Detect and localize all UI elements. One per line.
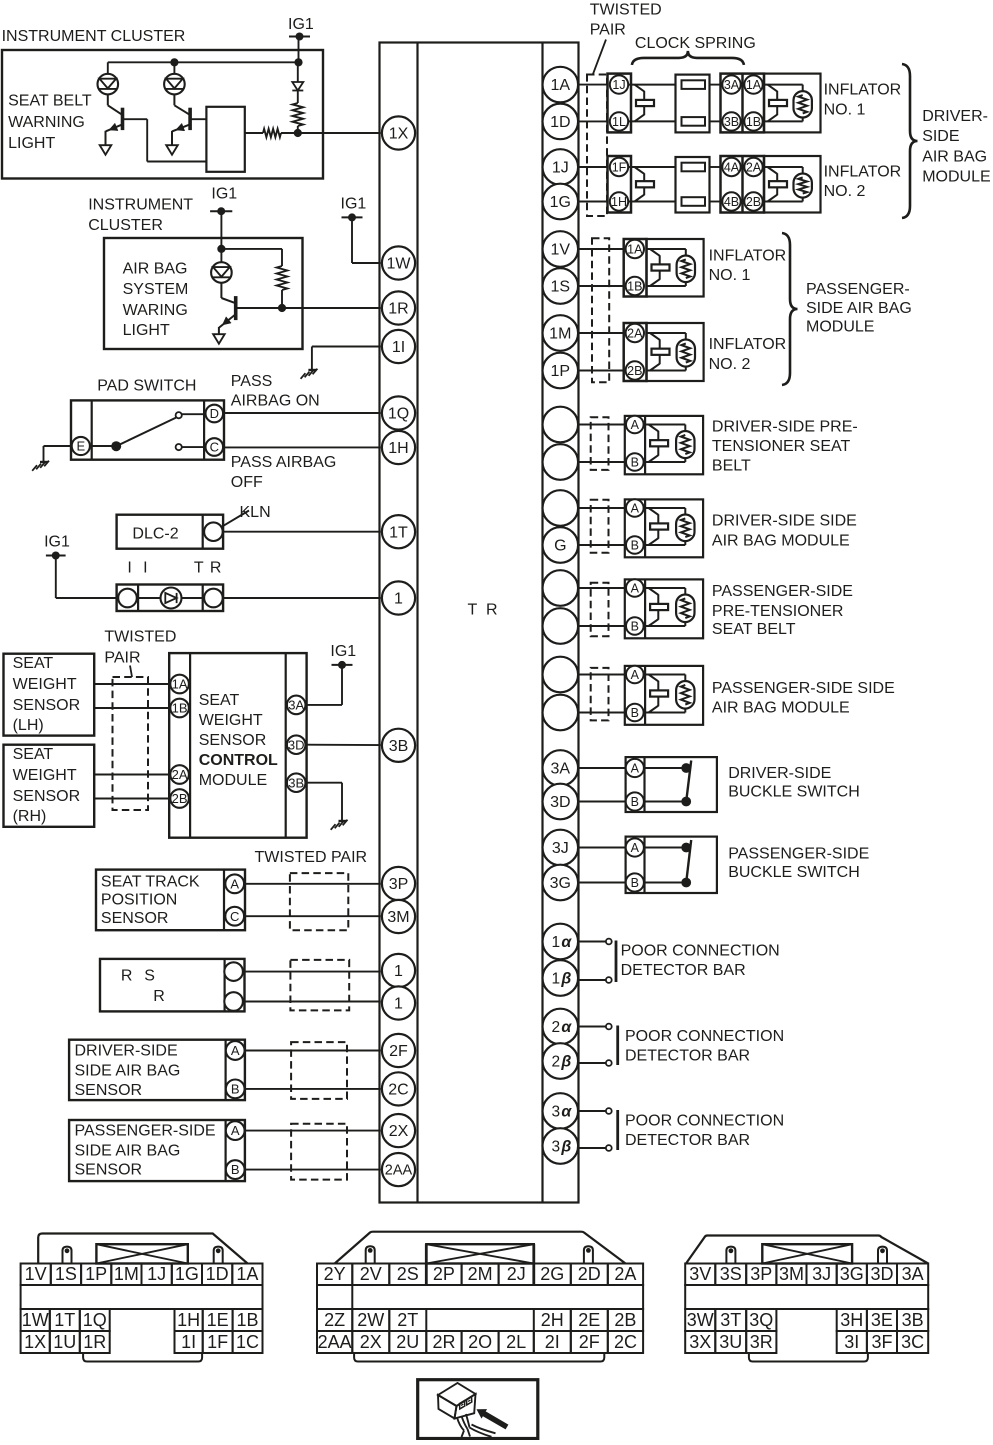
svg-text:C: C — [210, 440, 219, 455]
svg-text:2D: 2D — [578, 1264, 601, 1284]
svg-text:2X: 2X — [360, 1332, 382, 1352]
svg-text:3X: 3X — [689, 1332, 711, 1352]
svg-text:1G: 1G — [550, 194, 571, 211]
svg-text:CLUSTER: CLUSTER — [88, 217, 163, 234]
svg-text:PRE-TENSIONER: PRE-TENSIONER — [712, 603, 844, 620]
svg-text:SENSOR: SENSOR — [75, 1161, 143, 1178]
svg-text:1R: 1R — [388, 301, 408, 318]
svg-text:2L: 2L — [506, 1332, 526, 1352]
svg-text:2V: 2V — [360, 1264, 382, 1284]
svg-text:2A: 2A — [627, 326, 643, 340]
svg-text:2E: 2E — [578, 1310, 600, 1330]
svg-text:1J: 1J — [612, 78, 625, 92]
svg-text:3B: 3B — [902, 1310, 924, 1330]
svg-text:1: 1 — [394, 591, 403, 608]
svg-text:AIR BAG MODULE: AIR BAG MODULE — [712, 700, 850, 717]
svg-text:PAIR: PAIR — [590, 21, 626, 38]
svg-text:SENSOR: SENSOR — [101, 910, 169, 927]
svg-text:2B: 2B — [614, 1310, 636, 1330]
svg-text:BELT: BELT — [712, 458, 751, 475]
svg-text:A: A — [230, 876, 239, 891]
svg-text:1Q: 1Q — [388, 406, 409, 423]
svg-text:3A: 3A — [724, 78, 740, 92]
svg-text:1U: 1U — [53, 1332, 76, 1352]
svg-text:MODULE: MODULE — [199, 772, 267, 789]
svg-text:POOR CONNECTION: POOR CONNECTION — [625, 1028, 784, 1045]
svg-text:3A: 3A — [902, 1264, 924, 1284]
svg-text:3G: 3G — [840, 1264, 864, 1284]
svg-text:3A: 3A — [551, 761, 571, 778]
svg-text:3E: 3E — [871, 1310, 893, 1330]
svg-text:A: A — [631, 668, 640, 682]
svg-text:D: D — [210, 406, 219, 421]
svg-text:4A: 4A — [724, 160, 740, 174]
svg-text:3C: 3C — [901, 1332, 924, 1352]
svg-text:DLC-2: DLC-2 — [132, 526, 178, 543]
svg-text:2Z: 2Z — [324, 1310, 345, 1330]
svg-text:(LH): (LH) — [13, 717, 44, 734]
svg-text:3J: 3J — [552, 840, 569, 857]
svg-text:S: S — [144, 968, 155, 985]
svg-text:1S: 1S — [55, 1264, 77, 1284]
svg-text:PASSENGER-SIDE: PASSENGER-SIDE — [712, 583, 853, 600]
svg-text:POSITION: POSITION — [101, 891, 177, 908]
svg-text:(RH): (RH) — [13, 808, 47, 825]
svg-text:INSTRUMENT: INSTRUMENT — [88, 196, 193, 213]
svg-text:2Y: 2Y — [324, 1264, 346, 1284]
svg-text:R: R — [486, 601, 498, 618]
svg-text:β: β — [560, 1139, 571, 1156]
svg-text:SENSOR: SENSOR — [199, 732, 267, 749]
svg-text:2X: 2X — [389, 1123, 409, 1140]
svg-text:2O: 2O — [468, 1332, 492, 1352]
svg-text:B: B — [631, 619, 639, 633]
svg-text:B: B — [231, 1162, 240, 1177]
svg-text:1H: 1H — [611, 195, 627, 209]
svg-text:A: A — [631, 501, 640, 515]
svg-text:1T: 1T — [54, 1310, 75, 1330]
svg-text:1M: 1M — [114, 1264, 139, 1284]
svg-text:WEIGHT: WEIGHT — [199, 712, 263, 729]
svg-text:1D: 1D — [550, 114, 570, 131]
svg-text:DRIVER-SIDE: DRIVER-SIDE — [728, 765, 831, 782]
svg-text:3B: 3B — [389, 738, 409, 755]
svg-text:NO. 2: NO. 2 — [709, 356, 751, 373]
svg-text:3H: 3H — [840, 1310, 863, 1330]
svg-text:β: β — [560, 971, 571, 988]
svg-text:1H: 1H — [177, 1310, 200, 1330]
svg-text:TWISTED: TWISTED — [104, 628, 176, 645]
svg-text:3F: 3F — [871, 1332, 892, 1352]
svg-text:DRIVER-: DRIVER- — [922, 108, 988, 125]
svg-text:NO. 1: NO. 1 — [709, 267, 751, 284]
svg-text:1I: 1I — [181, 1332, 196, 1352]
svg-text:1F: 1F — [612, 160, 627, 174]
svg-text:1T: 1T — [389, 524, 408, 541]
svg-text:3U: 3U — [719, 1332, 742, 1352]
svg-text:KLN: KLN — [240, 504, 271, 521]
svg-text:1J: 1J — [552, 160, 569, 177]
svg-text:IG1: IG1 — [341, 196, 367, 213]
svg-text:1B: 1B — [746, 115, 761, 129]
svg-text:G: G — [554, 538, 566, 555]
svg-text:2B: 2B — [172, 791, 188, 806]
svg-text:1B: 1B — [172, 701, 188, 716]
svg-text:2M: 2M — [468, 1264, 493, 1284]
svg-text:2AA: 2AA — [318, 1332, 352, 1352]
svg-text:1S: 1S — [551, 279, 571, 296]
svg-text:2G: 2G — [540, 1264, 564, 1284]
svg-text:DRIVER-SIDE: DRIVER-SIDE — [75, 1043, 178, 1060]
svg-text:AIR BAG: AIR BAG — [123, 260, 188, 277]
svg-text:1A: 1A — [746, 78, 762, 92]
svg-text:3S: 3S — [720, 1264, 742, 1284]
svg-text:SEAT: SEAT — [13, 655, 54, 672]
svg-text:3G: 3G — [550, 875, 571, 892]
svg-text:1A: 1A — [236, 1264, 258, 1284]
svg-text:C: C — [230, 909, 239, 924]
svg-text:2A: 2A — [172, 767, 188, 782]
svg-text:1X: 1X — [389, 126, 409, 143]
svg-text:B: B — [631, 876, 639, 890]
svg-text:DRIVER-SIDE SIDE: DRIVER-SIDE SIDE — [712, 513, 857, 530]
svg-text:2I: 2I — [545, 1332, 560, 1352]
svg-text:3: 3 — [551, 1104, 560, 1121]
svg-text:PASSENGER-SIDE: PASSENGER-SIDE — [728, 845, 869, 862]
svg-text:1: 1 — [394, 963, 403, 980]
svg-text:AIRBAG ON: AIRBAG ON — [231, 393, 320, 410]
svg-text:1M: 1M — [549, 326, 571, 343]
svg-text:1A: 1A — [627, 242, 643, 256]
svg-text:3B: 3B — [724, 115, 739, 129]
svg-text:SEAT BELT: SEAT BELT — [8, 93, 92, 110]
svg-text:1X: 1X — [24, 1332, 46, 1352]
svg-text:WEIGHT: WEIGHT — [13, 767, 77, 784]
svg-text:INFLATOR: INFLATOR — [824, 82, 902, 99]
svg-text:1: 1 — [551, 971, 560, 988]
svg-text:1B: 1B — [237, 1310, 259, 1330]
svg-text:3: 3 — [551, 1139, 560, 1156]
svg-text:R: R — [210, 560, 222, 577]
svg-text:1C: 1C — [236, 1332, 259, 1352]
svg-text:B: B — [231, 1081, 240, 1096]
svg-text:2F: 2F — [579, 1332, 600, 1352]
svg-text:1V: 1V — [551, 242, 571, 259]
svg-text:AIR BAG: AIR BAG — [922, 148, 987, 165]
svg-text:2P: 2P — [433, 1264, 455, 1284]
svg-text:B: B — [631, 538, 639, 552]
svg-text:1W: 1W — [387, 256, 412, 273]
svg-text:1A: 1A — [551, 77, 571, 94]
svg-text:4B: 4B — [724, 195, 739, 209]
svg-text:A: A — [231, 1123, 240, 1138]
svg-text:WARNING: WARNING — [8, 114, 85, 131]
svg-text:3P: 3P — [389, 876, 409, 893]
svg-text:R: R — [121, 968, 133, 985]
svg-text:1P: 1P — [85, 1264, 107, 1284]
svg-text:SENSOR: SENSOR — [13, 788, 81, 805]
svg-text:IG1: IG1 — [330, 643, 356, 660]
svg-text:I: I — [127, 560, 131, 577]
svg-text:PASS AIRBAG: PASS AIRBAG — [231, 454, 337, 471]
svg-text:3D: 3D — [870, 1264, 893, 1284]
svg-text:1A: 1A — [172, 677, 188, 692]
svg-text:2U: 2U — [396, 1332, 419, 1352]
svg-text:α: α — [561, 934, 572, 951]
svg-text:PASS: PASS — [231, 373, 272, 390]
svg-text:1I: 1I — [392, 339, 405, 356]
svg-text:SYSTEM: SYSTEM — [123, 281, 189, 298]
svg-text:IG1: IG1 — [288, 16, 314, 33]
svg-text:DETECTOR BAR: DETECTOR BAR — [621, 962, 746, 979]
svg-text:LIGHT: LIGHT — [123, 322, 170, 339]
svg-text:INFLATOR: INFLATOR — [709, 248, 787, 265]
svg-text:2C: 2C — [388, 1082, 408, 1099]
svg-text:R: R — [153, 988, 165, 1005]
svg-text:T: T — [468, 601, 478, 618]
svg-text:DETECTOR BAR: DETECTOR BAR — [625, 1132, 750, 1149]
svg-text:TENSIONER SEAT: TENSIONER SEAT — [712, 438, 851, 455]
svg-text:OFF: OFF — [231, 474, 263, 491]
svg-text:CLOCK SPRING: CLOCK SPRING — [635, 35, 756, 52]
svg-text:SEAT BELT: SEAT BELT — [712, 621, 796, 638]
svg-text:POOR CONNECTION: POOR CONNECTION — [621, 943, 780, 960]
svg-text:INSTRUMENT CLUSTER: INSTRUMENT CLUSTER — [2, 28, 186, 45]
svg-text:2B: 2B — [746, 195, 761, 209]
svg-text:I: I — [143, 560, 147, 577]
svg-text:PAD SWITCH: PAD SWITCH — [97, 377, 196, 394]
svg-text:AIR BAG MODULE: AIR BAG MODULE — [712, 532, 850, 549]
svg-text:2J: 2J — [507, 1264, 526, 1284]
svg-text:A: A — [631, 418, 640, 432]
svg-text:MODULE: MODULE — [922, 168, 990, 185]
svg-text:1R: 1R — [83, 1332, 106, 1352]
svg-text:1H: 1H — [388, 440, 408, 457]
svg-text:1: 1 — [394, 996, 403, 1013]
svg-text:SEAT TRACK: SEAT TRACK — [101, 874, 200, 891]
svg-text:1: 1 — [551, 934, 560, 951]
svg-text:NO. 2: NO. 2 — [824, 183, 866, 200]
svg-text:PASSENGER-SIDE: PASSENGER-SIDE — [75, 1123, 216, 1140]
svg-text:SIDE AIR BAG: SIDE AIR BAG — [75, 1062, 181, 1079]
svg-text:3B: 3B — [288, 775, 304, 790]
svg-text:DETECTOR BAR: DETECTOR BAR — [625, 1048, 750, 1065]
svg-text:3R: 3R — [750, 1332, 773, 1352]
svg-text:1E: 1E — [207, 1310, 229, 1330]
svg-text:1Q: 1Q — [83, 1310, 107, 1330]
svg-text:B: B — [631, 706, 639, 720]
svg-text:2: 2 — [551, 1019, 560, 1036]
svg-text:POOR CONNECTION: POOR CONNECTION — [625, 1113, 784, 1130]
svg-text:PASSENGER-: PASSENGER- — [806, 281, 910, 298]
svg-text:1G: 1G — [175, 1264, 199, 1284]
svg-text:3A: 3A — [288, 697, 304, 712]
svg-text:2R: 2R — [432, 1332, 455, 1352]
svg-text:3W: 3W — [687, 1310, 714, 1330]
svg-text:2AA: 2AA — [385, 1163, 413, 1179]
svg-text:1V: 1V — [25, 1264, 47, 1284]
svg-text:1F: 1F — [207, 1332, 228, 1352]
svg-text:3Q: 3Q — [749, 1310, 773, 1330]
svg-text:A: A — [631, 581, 640, 595]
svg-text:3M: 3M — [779, 1264, 804, 1284]
svg-text:3T: 3T — [720, 1310, 741, 1330]
svg-text:PAIR: PAIR — [104, 649, 140, 666]
svg-text:B: B — [631, 795, 639, 809]
svg-text:1J: 1J — [147, 1264, 166, 1284]
svg-text:3V: 3V — [689, 1264, 711, 1284]
svg-text:BUCKLE SWITCH: BUCKLE SWITCH — [728, 864, 860, 881]
svg-text:SENSOR: SENSOR — [75, 1082, 143, 1099]
svg-text:A: A — [231, 1043, 240, 1058]
svg-text:1D: 1D — [206, 1264, 229, 1284]
svg-text:1B: 1B — [627, 279, 642, 293]
svg-text:SEAT: SEAT — [199, 692, 240, 709]
svg-text:WARING: WARING — [123, 302, 188, 319]
svg-text:1P: 1P — [551, 363, 571, 380]
svg-text:B: B — [631, 455, 639, 469]
svg-text:2C: 2C — [614, 1332, 637, 1352]
svg-text:INFLATOR: INFLATOR — [824, 164, 902, 181]
svg-text:A: A — [631, 761, 640, 775]
svg-text:2F: 2F — [389, 1043, 408, 1060]
svg-text:TWISTED: TWISTED — [590, 2, 662, 19]
svg-text:2A: 2A — [614, 1264, 636, 1284]
svg-text:SIDE AIR BAG: SIDE AIR BAG — [75, 1142, 181, 1159]
svg-text:BUCKLE SWITCH: BUCKLE SWITCH — [728, 783, 860, 800]
svg-text:CONTROL: CONTROL — [199, 752, 278, 769]
svg-text:SEAT: SEAT — [13, 746, 54, 763]
svg-text:PASSENGER-SIDE SIDE: PASSENGER-SIDE SIDE — [712, 680, 895, 697]
svg-text:2T: 2T — [397, 1310, 418, 1330]
svg-text:WEIGHT: WEIGHT — [13, 676, 77, 693]
svg-text:NO. 1: NO. 1 — [824, 101, 866, 118]
svg-text:2S: 2S — [397, 1264, 419, 1284]
svg-text:INFLATOR: INFLATOR — [709, 336, 787, 353]
svg-text:TWISTED PAIR: TWISTED PAIR — [255, 849, 368, 866]
svg-text:α: α — [561, 1019, 572, 1036]
svg-text:β: β — [560, 1054, 571, 1071]
svg-text:DRIVER-SIDE PRE-: DRIVER-SIDE PRE- — [712, 418, 858, 435]
svg-text:MODULE: MODULE — [806, 319, 874, 336]
svg-text:IG1: IG1 — [44, 534, 70, 551]
svg-text:IG1: IG1 — [211, 186, 237, 203]
svg-text:3M: 3M — [387, 909, 409, 926]
svg-text:2B: 2B — [627, 364, 642, 378]
svg-text:1L: 1L — [612, 115, 626, 129]
svg-text:2W: 2W — [357, 1310, 384, 1330]
svg-text:2: 2 — [551, 1054, 560, 1071]
svg-text:2H: 2H — [541, 1310, 564, 1330]
svg-text:1W: 1W — [22, 1310, 49, 1330]
svg-text:LIGHT: LIGHT — [8, 135, 55, 152]
svg-text:SIDE: SIDE — [922, 128, 959, 145]
svg-text:3J: 3J — [812, 1264, 831, 1284]
svg-text:SENSOR: SENSOR — [13, 697, 81, 714]
svg-text:α: α — [561, 1104, 572, 1121]
svg-text:3D: 3D — [288, 737, 305, 752]
svg-text:3I: 3I — [844, 1332, 859, 1352]
svg-text:T: T — [194, 560, 204, 577]
svg-text:2A: 2A — [746, 160, 762, 174]
svg-text:E: E — [76, 439, 85, 454]
svg-text:3P: 3P — [750, 1264, 772, 1284]
svg-text:3D: 3D — [550, 794, 570, 811]
svg-text:SIDE AIR BAG: SIDE AIR BAG — [806, 300, 912, 317]
svg-text:A: A — [631, 841, 640, 855]
